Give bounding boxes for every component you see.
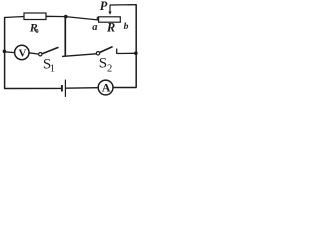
svg-text:a: a (92, 22, 97, 33)
svg-text:2: 2 (107, 64, 112, 75)
svg-text:V: V (19, 47, 27, 59)
svg-text:1: 1 (50, 64, 55, 75)
svg-text:P: P (100, 0, 108, 13)
svg-text:A: A (102, 81, 111, 95)
svg-text:R: R (106, 20, 115, 34)
svg-text:b: b (124, 21, 129, 32)
svg-text:S: S (99, 55, 107, 71)
svg-text:0: 0 (35, 28, 38, 35)
